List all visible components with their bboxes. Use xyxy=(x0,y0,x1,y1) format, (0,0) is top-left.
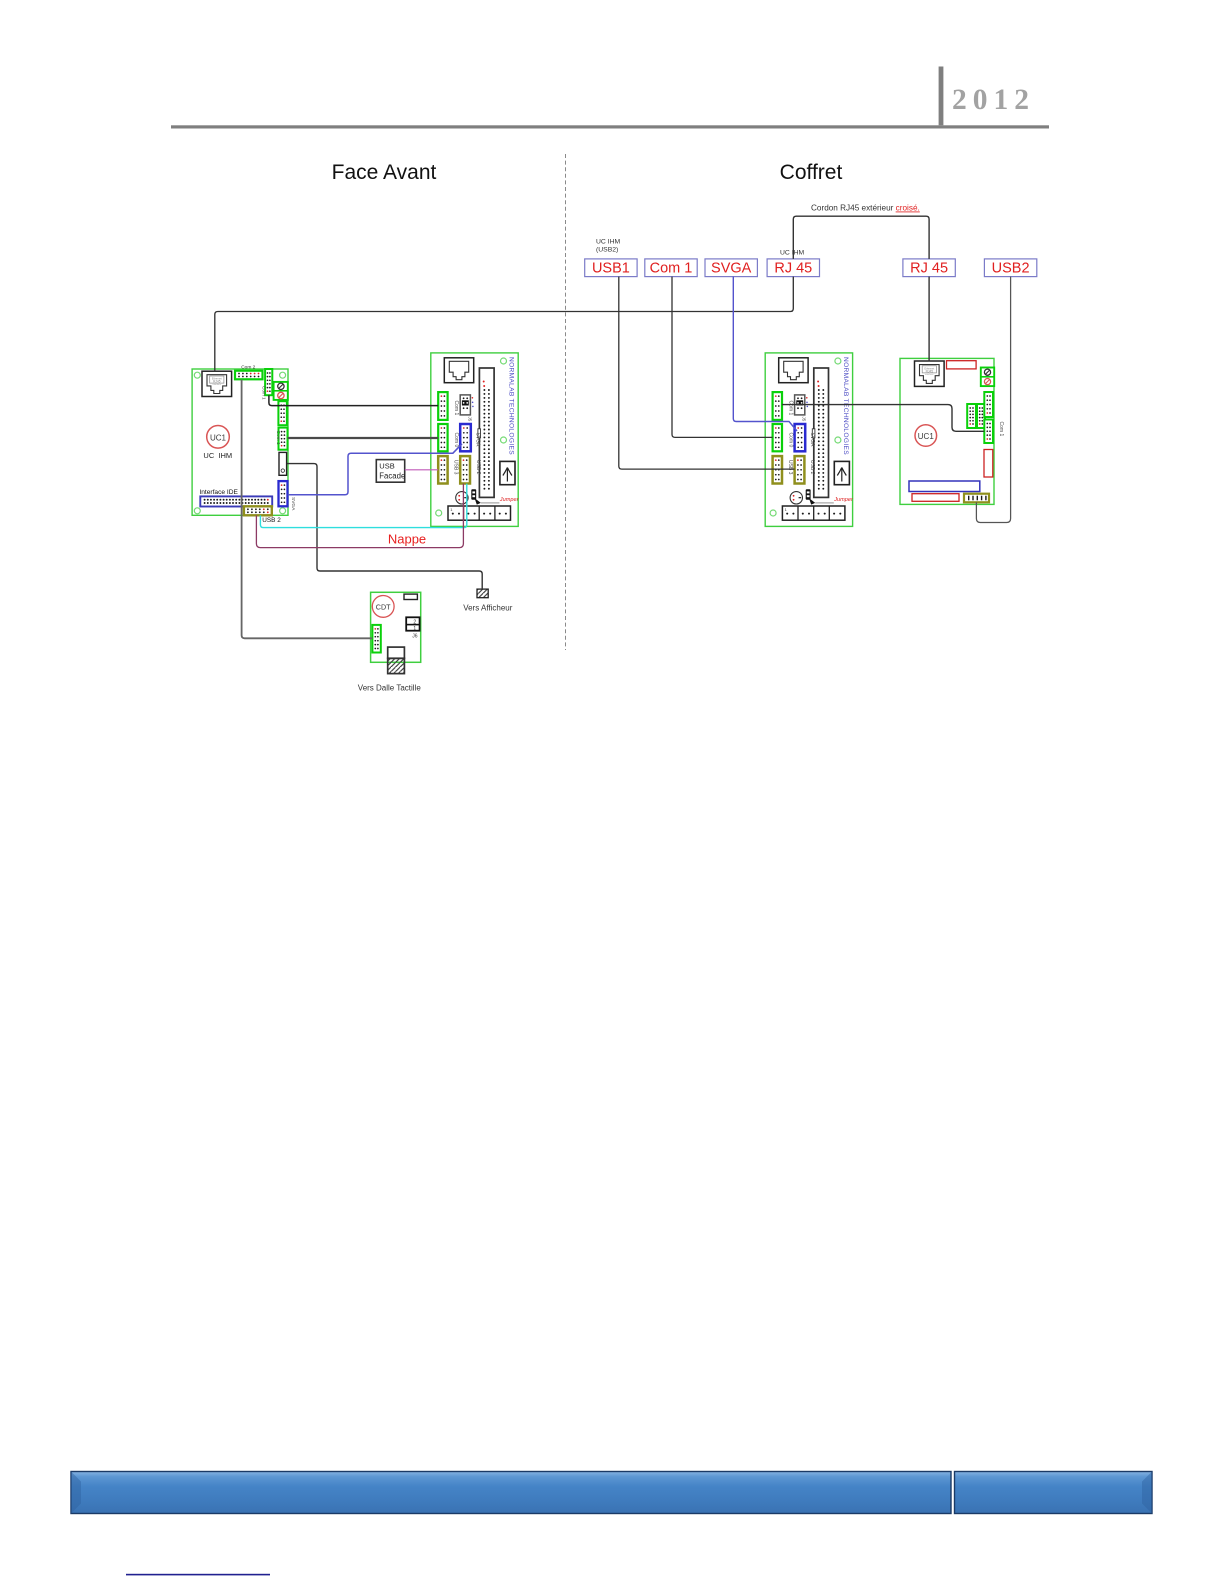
wire: RJ 45 box to Face Avant UC IHM board RJ45 xyxy=(215,277,794,372)
node RJ 45 label box (exterior) xyxy=(903,259,955,277)
connector Com 1 (coffret UC1) xyxy=(984,420,993,444)
svg-text:RJ 45: RJ 45 xyxy=(774,261,812,277)
connector SVGA (Coffret) xyxy=(795,424,806,451)
header vertical bar xyxy=(939,67,944,126)
svg-text:Coffret: Coffret xyxy=(780,161,843,184)
svg-text:Com 0: Com 0 xyxy=(788,433,794,448)
wire: UC IHM Com 1 to NORMALAB Com 1 xyxy=(269,395,438,405)
board outline: NORMALAB TECHNOLOGIES board (Coffret) xyxy=(765,353,852,527)
svg-text:J6: J6 xyxy=(412,633,418,639)
wire: nappe USB maroon xyxy=(256,484,463,548)
node Com 1 label box xyxy=(645,259,697,277)
terminal block row (Coffret) xyxy=(782,506,845,520)
svg-text:(USB2): (USB2) xyxy=(596,247,618,254)
svg-text:Com 1: Com 1 xyxy=(650,261,693,277)
svg-text:Face Avant: Face Avant xyxy=(332,161,437,184)
svg-text:USB1: USB1 xyxy=(592,261,630,277)
svg-text:J5: J5 xyxy=(467,417,472,422)
footer bar left xyxy=(71,1472,951,1514)
battery (Coffret) xyxy=(790,492,802,504)
wire: RJ 45 exterior box down to coffret UC1 board RJ45 xyxy=(928,277,930,362)
jumper block and cursor (Face Avant) xyxy=(471,489,499,504)
IC UC1 (UC IHM board) xyxy=(207,426,230,449)
wire: USB Facade to NORMALAB USB 3 (magenta) xyxy=(405,469,438,471)
wire: UC IHM SVGA to NORMALAB SVGA (blue) xyxy=(288,444,462,495)
connector USB (coffret UC1 board, olive) xyxy=(964,494,989,503)
footer bar right xyxy=(955,1472,1153,1514)
RJ45 ethernet jack (coffret UC1 board) xyxy=(915,361,945,386)
board outline: NORMALAB TECHNOLOGIES board (Face Avant) xyxy=(431,353,518,527)
svg-text:CDT: CDT xyxy=(376,603,391,612)
wire: USB1 box to coffret NORMALAB USB 2 connector xyxy=(619,277,795,470)
svg-text:interface: interface xyxy=(213,383,222,386)
board outline: coffret UC1 board xyxy=(900,358,994,504)
svg-text:Com 1: Com 1 xyxy=(275,431,281,445)
svg-text:RJ45: RJ45 xyxy=(213,380,221,384)
connector J6 (CDT board) xyxy=(406,617,419,632)
connector Interface IDE xyxy=(200,496,272,506)
connector J5 (Face Avant) xyxy=(460,395,474,415)
svg-text:Com 1: Com 1 xyxy=(261,386,266,400)
wire: UC IHM Com 2 connector down to CDT board connector xyxy=(242,380,373,639)
connector J5 (Coffret) xyxy=(795,395,809,415)
RJ45 jack (Face Avant) xyxy=(444,358,473,383)
footnote separator xyxy=(126,1574,270,1576)
wire: nappe USB cyan xyxy=(260,484,466,528)
svg-text:Com 1: Com 1 xyxy=(998,422,1004,437)
IDE pin header (Coffret) xyxy=(814,368,829,497)
node Vers Afficheur (hatched) xyxy=(477,589,488,598)
connector right upper xyxy=(278,401,287,425)
RJ45 jack (Coffret) xyxy=(779,358,808,383)
svg-text:NORMALAB TECHNOLOGIES: NORMALAB TECHNOLOGIES xyxy=(842,357,849,455)
polarity arrow box (Face Avant) xyxy=(500,461,515,484)
battery (Face Avant) xyxy=(456,492,468,504)
connector right upper (coffret UC1) xyxy=(984,392,993,417)
svg-text:USB: USB xyxy=(379,462,394,471)
header horizontal rule xyxy=(171,125,1049,128)
wire: UC IHM Com 1 (lower) to NORMALAB Com 0 xyxy=(288,437,439,439)
connector USB 2 (Coffret) xyxy=(795,456,805,483)
terminal block row (Face Avant) xyxy=(448,506,511,520)
mounting holes (Face Avant) xyxy=(501,358,507,364)
node RJ 45 label box (UC IHM) xyxy=(767,259,819,277)
svg-text:Jumper: Jumper xyxy=(499,497,520,503)
svg-text:Jumper: Jumper xyxy=(833,497,854,503)
svg-text:Com 1: Com 1 xyxy=(453,401,459,416)
polarity arrow box (Coffret) xyxy=(834,461,849,484)
connector Com 1 (Coffret) xyxy=(773,392,782,420)
wire: USB2 box to coffret UC1 board USB connector xyxy=(976,277,1010,523)
svg-text:RJ 45: RJ 45 xyxy=(910,261,948,277)
svg-text:NORMALAB TECHNOLOGIES: NORMALAB TECHNOLOGIES xyxy=(508,357,515,455)
connector mid B (coffret UC1) xyxy=(977,404,985,428)
red header (top, coffret UC1 board) xyxy=(947,361,977,369)
node USB1 label box xyxy=(585,259,637,277)
power terminal with circle symbols (coffret UC1 board) xyxy=(981,368,994,387)
svg-text:USB 2: USB 2 xyxy=(475,460,481,475)
svg-text:UC1: UC1 xyxy=(918,432,935,441)
white header connector xyxy=(279,452,287,475)
connector USB 2 (UC IHM board) xyxy=(244,506,272,515)
svg-text:Cordon RJ45 extérieur croisé.: Cordon RJ45 extérieur croisé. xyxy=(811,204,920,213)
wire: UC IHM white header to Vers Afficheur xyxy=(287,464,482,590)
svg-text:USB2: USB2 xyxy=(992,261,1030,277)
svg-text:UC IHM: UC IHM xyxy=(596,239,621,246)
red vertical header (coffret UC1 board) xyxy=(984,450,993,478)
wire: SVGA box to coffret NORMALAB SVGA connector (blue) xyxy=(733,277,797,431)
svg-text:Nappe: Nappe xyxy=(388,532,426,547)
blue horizontal header (coffret UC1 board) xyxy=(909,481,980,492)
connector CDT board xyxy=(372,625,380,653)
board outline: UC IHM board xyxy=(192,369,288,515)
svg-text:UC IHM: UC IHM xyxy=(203,451,232,460)
mounting holes (UC IHM board) xyxy=(194,372,200,378)
node SVGA label box xyxy=(705,259,757,277)
svg-text:Vers Dalle Tactille: Vers Dalle Tactille xyxy=(358,683,422,692)
connector USB 3 (Face Avant) xyxy=(438,456,447,483)
wire: Com 1 box to coffret NORMALAB Com 0 connector xyxy=(672,277,773,438)
node Vers Dalle Tactille (hatched) xyxy=(388,647,405,674)
RJ45 ethernet jack (UC IHM board) xyxy=(202,371,232,396)
power terminal with circle symbols xyxy=(274,382,288,400)
svg-text:J5: J5 xyxy=(802,417,807,422)
svg-text:SVGA: SVGA xyxy=(809,433,815,448)
svg-text:USB 2: USB 2 xyxy=(809,460,815,475)
svg-text:2: 2 xyxy=(413,620,416,626)
svg-text:UC1: UC1 xyxy=(210,433,227,442)
dashed separator line xyxy=(565,154,567,650)
connector USB 3 (Coffret) xyxy=(773,456,782,483)
node USB Facade xyxy=(376,460,405,483)
svg-text:Vers Afficheur: Vers Afficheur xyxy=(463,604,513,613)
connector Com 0 (Face Avant) xyxy=(438,424,447,451)
svg-text:interface: interface xyxy=(925,373,934,376)
red horizontal header (coffret UC1 board) xyxy=(912,494,959,502)
IC CDT xyxy=(372,596,394,618)
svg-text:USB 3: USB 3 xyxy=(787,460,793,475)
svg-text:SVGA: SVGA xyxy=(474,433,480,448)
connector mid A (coffret UC1) xyxy=(967,404,976,428)
svg-text:Com 0: Com 0 xyxy=(453,433,459,448)
connector Com 1 vertical xyxy=(265,369,272,395)
svg-text:2012: 2012 xyxy=(952,84,1035,116)
connector Com 0 (Coffret) xyxy=(773,424,782,451)
connector Com 1 (Face Avant) xyxy=(438,392,447,420)
svg-text:SVGA: SVGA xyxy=(711,261,752,277)
wire: coffret NORMALAB Com 1 to coffret UC1 board Com 1 xyxy=(782,405,984,432)
IDE pin header (Face Avant) xyxy=(479,368,494,497)
svg-text:UC IHM: UC IHM xyxy=(780,250,805,257)
node USB2 label box xyxy=(984,259,1036,277)
connector USB 2 (Face Avant) xyxy=(460,456,470,483)
connector Com 2 xyxy=(235,371,263,380)
svg-text:Interface IDE: Interface IDE xyxy=(199,489,238,496)
connector SVGA UC IHM xyxy=(279,481,288,506)
svg-text:1: 1 xyxy=(413,626,416,632)
svg-text:USB 3: USB 3 xyxy=(453,460,459,475)
svg-text:Facade: Facade xyxy=(379,471,405,480)
connector SVGA (Face Avant) xyxy=(460,424,471,451)
connector Com 1 lower xyxy=(279,428,288,450)
IC UC1 (coffret UC1 board) xyxy=(915,425,937,447)
svg-text:SVGA: SVGA xyxy=(290,497,296,511)
svg-text:USB 2: USB 2 xyxy=(262,517,281,524)
svg-text:RJ45: RJ45 xyxy=(926,369,934,373)
board outline: CDT board xyxy=(371,592,421,662)
mounting holes (Coffret) xyxy=(835,358,841,364)
svg-text:Com 1: Com 1 xyxy=(788,401,794,416)
jumper block and cursor (Coffret) xyxy=(806,489,834,504)
wire: cordon RJ45 bracket between RJ 45 boxes xyxy=(793,216,929,259)
small header (CDT board) xyxy=(404,594,417,599)
